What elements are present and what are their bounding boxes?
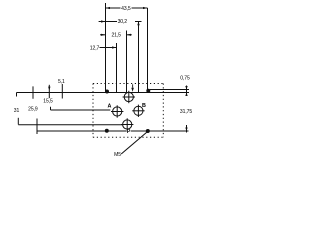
mounting dot D2 [146,89,150,93]
svg-text:43,5: 43,5 [121,6,131,12]
dimension line 30,2 left part [99,21,119,23]
dimension line 21,5 right stub [127,34,132,36]
arrow 43,5 left (inside, tip at left tick) [106,7,111,9]
dimension text 30,2 [117,18,128,24]
wire to P [18,124,122,126]
left tick x62 [61,84,63,99]
right dim tick lower [186,125,188,133]
stud T (top center) [123,91,135,103]
wire to A [51,109,111,111]
arrow 43,5 right (inside, tip at right tick) [143,7,148,9]
mounting dot D3 [105,129,109,133]
arrowhead knot on tick x49 [48,87,50,91]
dimension line 12,7 [100,47,117,49]
arrow 31,75 bottom (down, tip on lower wire) [185,128,187,132]
mini down arrow near top stud [131,88,134,92]
arrow 21,5 right (outside) [127,34,132,36]
dimension line 21,5 left stub [100,34,106,36]
upper right line L0 [150,89,189,91]
main horizontal line L1 [17,92,190,94]
stud B [132,105,144,117]
stud P [121,118,133,130]
svg-text:5,1: 5,1 [58,79,65,85]
svg-text:M5: M5 [114,152,121,158]
svg-text:P: P [127,129,131,135]
svg-text:21,5: 21,5 [111,32,121,38]
extension line V5 [147,8,149,91]
dimension line 43,5 [106,7,148,9]
arrow 0,75 upper (down, tip on L0) [185,86,187,90]
svg-text:B: B [142,103,146,109]
extension line V3 [126,31,128,93]
wire P corner stub [17,118,19,125]
svg-text:30,2: 30,2 [118,19,128,25]
dimension line 30,2 right part [135,21,142,23]
leader line M5 [121,132,146,154]
dimension text 43,5 [121,5,132,11]
arrowheads [101,7,188,131]
dotted enclosure rectangle [93,84,163,138]
arrow 0,75/31,75 shared (up, tip on L1) [185,93,187,97]
right dim tick upper [186,86,188,97]
extension line V2 [116,43,118,93]
left tick x33 [32,86,34,98]
svg-text:0,75: 0,75 [180,76,190,82]
arrow 12,7 (tip at V2 pointing right) [112,46,117,48]
svg-text:12,7: 12,7 [90,46,100,52]
mounting dot D1 [105,90,109,94]
left tick x49 [48,85,50,98]
arrow 30,2 left (outside, tip at V1 pointing right) [101,20,106,22]
mounting dot D4 [146,129,150,133]
arrow 21,5 left (outside) [101,34,106,36]
svg-text:31: 31 [14,108,20,114]
terminal label P [127,130,131,134]
extension line V4 [138,21,140,92]
tick on P wire x37 [36,119,38,135]
svg-text:31,75: 31,75 [180,109,192,115]
lower wire through D3 and D4 [37,130,189,132]
svg-text:25,9: 25,9 [28,106,38,112]
svg-text:A: A [107,103,111,109]
arrow 30,2 right (outside, tip at V4 pointing left) [137,22,139,26]
svg-text:15,5: 15,5 [43,99,53,105]
L1 left corner stub [16,93,18,97]
wire A corner stub [50,107,52,110]
extension line V1 [105,3,107,92]
stud A [111,105,123,117]
